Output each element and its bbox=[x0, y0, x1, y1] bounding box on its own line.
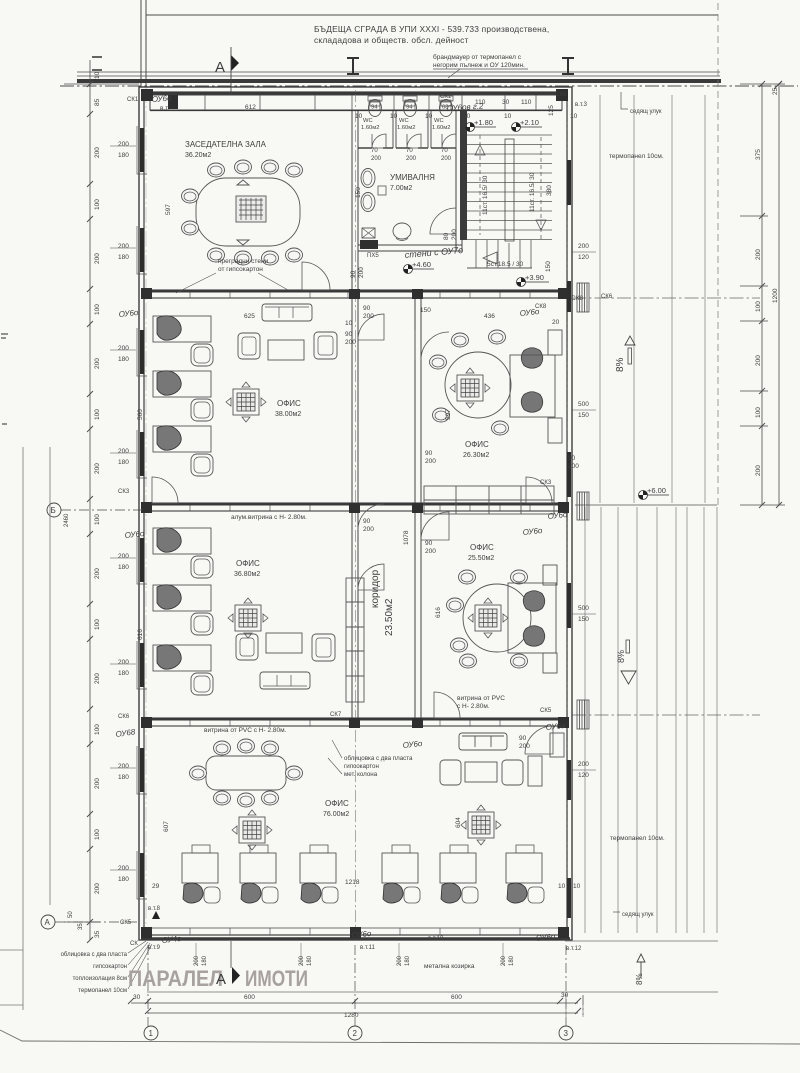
svg-text:200: 200 bbox=[118, 243, 129, 250]
svg-text:+2.10: +2.10 bbox=[520, 118, 539, 127]
svg-text:200: 200 bbox=[118, 763, 129, 770]
svg-text:100: 100 bbox=[94, 619, 101, 630]
svg-text:ОУ6а: ОУ6а bbox=[545, 721, 566, 732]
svg-text:ОУ6о: ОУ6о bbox=[547, 510, 568, 521]
svg-text:1: 1 bbox=[149, 1029, 154, 1038]
svg-text:СК8: СК8 bbox=[571, 295, 583, 302]
svg-text:94: 94 bbox=[371, 105, 378, 111]
svg-text:ПХ5: ПХ5 bbox=[367, 253, 379, 259]
svg-text:90: 90 bbox=[568, 455, 576, 462]
svg-text:200: 200 bbox=[299, 955, 305, 966]
svg-text:436: 436 bbox=[484, 313, 495, 320]
svg-text:94: 94 bbox=[406, 105, 413, 111]
svg-text:200: 200 bbox=[118, 659, 129, 666]
svg-text:80: 80 bbox=[443, 232, 450, 240]
svg-text:70: 70 bbox=[406, 148, 413, 154]
svg-text:термопанел 10см.: термопанел 10см. bbox=[609, 153, 664, 160]
svg-text:200: 200 bbox=[118, 345, 129, 352]
svg-text:200: 200 bbox=[94, 358, 101, 369]
svg-text:10: 10 bbox=[558, 883, 566, 890]
svg-text:А: А bbox=[45, 918, 51, 927]
svg-text:+6.00: +6.00 bbox=[647, 486, 666, 495]
svg-text:200: 200 bbox=[568, 463, 579, 470]
svg-text:90: 90 bbox=[363, 305, 371, 312]
svg-text:120: 120 bbox=[578, 772, 589, 779]
svg-text:150: 150 bbox=[420, 307, 431, 314]
svg-text:стени с ОУ7о: стени с ОУ7о bbox=[404, 245, 463, 260]
svg-text:в.т.11: в.т.11 bbox=[360, 945, 375, 951]
svg-text:топлоизолация 8см: топлоизолация 8см bbox=[73, 976, 127, 982]
svg-text:560: 560 bbox=[137, 409, 144, 420]
svg-text:125: 125 bbox=[548, 105, 555, 116]
svg-text:8%: 8% bbox=[615, 357, 626, 372]
svg-text:100: 100 bbox=[755, 407, 762, 418]
svg-text:ИМОТИ: ИМОТИ bbox=[245, 966, 308, 991]
svg-text:70: 70 bbox=[441, 148, 448, 154]
svg-text:1.60м2: 1.60м2 bbox=[397, 125, 416, 131]
svg-text:200: 200 bbox=[501, 955, 507, 966]
svg-text:180: 180 bbox=[118, 564, 129, 571]
svg-text:СК1: СК1 bbox=[127, 97, 139, 103]
svg-text:150: 150 bbox=[578, 412, 589, 419]
svg-text:30: 30 bbox=[133, 994, 141, 1001]
svg-text:200: 200 bbox=[406, 156, 417, 162]
svg-text:200: 200 bbox=[519, 743, 530, 750]
svg-text:10: 10 bbox=[390, 113, 398, 120]
svg-text:180: 180 bbox=[118, 152, 129, 159]
svg-text:200: 200 bbox=[363, 526, 374, 533]
svg-text:375: 375 bbox=[755, 149, 762, 160]
svg-text:200: 200 bbox=[94, 778, 101, 789]
svg-text:10: 10 bbox=[94, 71, 101, 79]
svg-text:термопанел 10см: термопанел 10см bbox=[78, 988, 127, 994]
svg-text:200: 200 bbox=[755, 465, 762, 476]
svg-text:+1.80: +1.80 bbox=[474, 118, 493, 127]
svg-text:500: 500 bbox=[578, 401, 589, 408]
svg-text:200: 200 bbox=[345, 339, 356, 346]
svg-text:СК3: СК3 bbox=[540, 480, 552, 486]
svg-text:200: 200 bbox=[358, 267, 365, 278]
svg-text:ЗАСЕДАТЕЛНА ЗАЛА: ЗАСЕДАТЕЛНА ЗАЛА bbox=[185, 140, 267, 149]
svg-text:36.80м2: 36.80м2 bbox=[234, 571, 260, 578]
svg-text:612: 612 bbox=[245, 104, 256, 111]
svg-text:3: 3 bbox=[564, 1029, 569, 1038]
svg-text:ОУ6о: ОУ6о bbox=[152, 94, 173, 104]
svg-text:коридор: коридор bbox=[370, 569, 381, 608]
svg-text:26.30м2: 26.30м2 bbox=[463, 452, 489, 459]
svg-text:100: 100 bbox=[94, 514, 101, 525]
svg-text:гипсокартон: гипсокартон bbox=[93, 964, 127, 970]
svg-text:с Н- 2.80м.: с Н- 2.80м. bbox=[457, 703, 490, 710]
svg-text:+3.90: +3.90 bbox=[525, 273, 544, 282]
svg-text:11ст. 16.5/ 30: 11ст. 16.5/ 30 bbox=[482, 175, 489, 215]
svg-text:200: 200 bbox=[397, 955, 403, 966]
svg-text:30: 30 bbox=[561, 992, 569, 999]
svg-text:в.т.: в.т. bbox=[160, 105, 170, 112]
svg-text:200: 200 bbox=[94, 568, 101, 579]
svg-text:WC: WC bbox=[434, 118, 444, 124]
svg-text:облицовка с два пласта: облицовка с два пласта bbox=[61, 952, 128, 958]
svg-text:в.т.10: в.т.10 bbox=[428, 936, 444, 942]
svg-text:2460: 2460 bbox=[64, 513, 70, 527]
svg-text:10: 10 bbox=[355, 113, 363, 120]
svg-text:76.00м2: 76.00м2 bbox=[323, 811, 349, 818]
svg-text:100: 100 bbox=[94, 304, 101, 315]
svg-text:30: 30 bbox=[502, 99, 510, 106]
svg-text:180: 180 bbox=[118, 356, 129, 363]
svg-text:мет. колона: мет. колона bbox=[344, 771, 378, 778]
svg-text:седящ улук: седящ улук bbox=[630, 109, 662, 115]
svg-text:10: 10 bbox=[570, 113, 578, 120]
svg-text:200: 200 bbox=[118, 865, 129, 872]
svg-text:25.50м2: 25.50м2 bbox=[468, 555, 494, 562]
svg-text:200: 200 bbox=[94, 147, 101, 158]
svg-text:90: 90 bbox=[519, 735, 527, 742]
svg-text:38.00м2: 38.00м2 bbox=[275, 411, 301, 418]
svg-text:200: 200 bbox=[441, 156, 452, 162]
svg-text:625: 625 bbox=[244, 313, 255, 320]
svg-text:23.50м2: 23.50м2 bbox=[384, 598, 395, 636]
svg-text:597: 597 bbox=[165, 204, 172, 215]
svg-text:100: 100 bbox=[94, 199, 101, 210]
svg-text:180: 180 bbox=[405, 955, 411, 966]
svg-text:8%: 8% bbox=[616, 650, 626, 663]
svg-text:в.т.3: в.т.3 bbox=[575, 102, 588, 108]
svg-text:метална козирка: метална козирка bbox=[424, 963, 475, 970]
svg-text:25: 25 bbox=[772, 87, 779, 95]
svg-text:10: 10 bbox=[425, 113, 433, 120]
svg-text:СК5: СК5 bbox=[540, 708, 552, 714]
svg-text:616: 616 bbox=[435, 607, 442, 618]
svg-text:200: 200 bbox=[425, 548, 436, 555]
svg-text:ОФИС: ОФИС bbox=[470, 543, 494, 552]
svg-text:180: 180 bbox=[307, 955, 313, 966]
svg-text:200: 200 bbox=[755, 355, 762, 366]
svg-text:36.20м2: 36.20м2 bbox=[185, 152, 211, 159]
svg-text:150: 150 bbox=[578, 616, 589, 623]
svg-text:преградни стени: преградни стени bbox=[218, 258, 269, 265]
svg-text:200: 200 bbox=[578, 243, 589, 250]
svg-text:СК6: СК6 bbox=[555, 92, 567, 98]
svg-text:витрина от PVC: витрина от PVC bbox=[457, 695, 505, 702]
svg-text:от гипсокартон: от гипсокартон bbox=[218, 266, 263, 273]
svg-text:ОФИС: ОФИС bbox=[325, 799, 349, 808]
svg-text:ОУ68: ОУ68 bbox=[115, 727, 136, 739]
svg-text:90: 90 bbox=[350, 270, 357, 278]
svg-text:150: 150 bbox=[355, 187, 362, 198]
svg-text:СК6: СК6 bbox=[601, 294, 613, 300]
svg-text:20: 20 bbox=[552, 319, 560, 326]
svg-text:склададова и обществ. обсл. де: склададова и обществ. обсл. дейност bbox=[314, 35, 469, 45]
svg-text:ОУ6о: ОУ6о bbox=[535, 932, 556, 943]
svg-text:180: 180 bbox=[202, 955, 208, 966]
svg-text:200: 200 bbox=[371, 156, 382, 162]
svg-text:180: 180 bbox=[118, 459, 129, 466]
svg-text:200: 200 bbox=[94, 463, 101, 474]
svg-text:150: 150 bbox=[545, 261, 552, 272]
svg-text:607: 607 bbox=[163, 821, 170, 832]
svg-text:СК7: СК7 bbox=[330, 712, 342, 718]
svg-text:алум.витрина с Н- 2.80м.: алум.витрина с Н- 2.80м. bbox=[231, 514, 307, 521]
svg-text:29: 29 bbox=[152, 883, 160, 890]
svg-text:100: 100 bbox=[755, 301, 762, 312]
svg-text:в.т.12: в.т.12 bbox=[566, 946, 582, 952]
svg-text:ПАРАЛЕЛ: ПАРАЛЕЛ bbox=[128, 966, 223, 991]
svg-text:гипсокартон: гипсокартон bbox=[344, 763, 379, 770]
svg-text:35: 35 bbox=[78, 923, 84, 930]
svg-text:10: 10 bbox=[573, 883, 581, 890]
svg-text:100: 100 bbox=[94, 724, 101, 735]
svg-text:200: 200 bbox=[118, 141, 129, 148]
svg-text:+4.60: +4.60 bbox=[412, 260, 431, 269]
svg-text:СК3: СК3 bbox=[118, 489, 130, 495]
svg-text:термопанел 10см.: термопанел 10см. bbox=[610, 835, 665, 842]
svg-text:90: 90 bbox=[363, 518, 371, 525]
svg-text:СК6: СК6 bbox=[118, 714, 130, 720]
svg-text:200: 200 bbox=[363, 313, 374, 320]
svg-text:Б: Б bbox=[51, 506, 56, 515]
svg-text:8%: 8% bbox=[635, 973, 644, 985]
svg-text:180: 180 bbox=[509, 955, 515, 966]
svg-text:облицовка с два пласта: облицовка с два пласта bbox=[344, 755, 413, 762]
svg-text:1.60м2: 1.60м2 bbox=[432, 125, 451, 131]
svg-text:200: 200 bbox=[425, 458, 436, 465]
svg-text:ОУ6о: ОУ6о bbox=[402, 739, 423, 750]
svg-text:100: 100 bbox=[94, 829, 101, 840]
svg-text:СК5: СК5 bbox=[120, 920, 132, 926]
svg-text:11ст. 16.5/ 30: 11ст. 16.5/ 30 bbox=[529, 172, 536, 212]
svg-text:СК8: СК8 bbox=[535, 304, 547, 310]
svg-text:седящ улук: седящ улук bbox=[622, 912, 654, 918]
svg-text:1218: 1218 bbox=[345, 879, 360, 886]
svg-text:500: 500 bbox=[578, 605, 589, 612]
svg-text:110: 110 bbox=[521, 99, 532, 106]
svg-text:СК1: СК1 bbox=[440, 94, 452, 100]
svg-text:110: 110 bbox=[475, 99, 486, 106]
svg-text:10: 10 bbox=[345, 320, 353, 327]
svg-text:негорим пълнеж и ОУ 120мин.: негорим пълнеж и ОУ 120мин. bbox=[433, 62, 525, 69]
svg-text:600: 600 bbox=[244, 994, 255, 1001]
svg-text:90: 90 bbox=[345, 331, 353, 338]
svg-text:ОУ6о: ОУ6о bbox=[118, 308, 139, 319]
svg-text:10: 10 bbox=[504, 113, 512, 120]
svg-text:200: 200 bbox=[94, 253, 101, 264]
svg-text:1200: 1200 bbox=[772, 288, 779, 303]
svg-text:90: 90 bbox=[425, 540, 433, 547]
svg-text:90: 90 bbox=[425, 450, 433, 457]
svg-text:597: 597 bbox=[445, 409, 452, 420]
svg-text:витрина от PVC с Н- 2.80м.: витрина от PVC с Н- 2.80м. bbox=[204, 727, 287, 734]
svg-text:180: 180 bbox=[118, 774, 129, 781]
svg-text:200: 200 bbox=[94, 883, 101, 894]
svg-text:10: 10 bbox=[463, 113, 471, 120]
svg-text:А: А bbox=[215, 59, 225, 76]
svg-text:85: 85 bbox=[94, 98, 101, 106]
svg-text:50: 50 bbox=[68, 911, 74, 918]
svg-text:А: А bbox=[216, 971, 226, 988]
svg-text:70: 70 bbox=[371, 148, 378, 154]
svg-text:в.т.8: в.т.8 bbox=[148, 906, 161, 912]
svg-text:616: 616 bbox=[137, 629, 144, 640]
svg-text:200: 200 bbox=[755, 249, 762, 260]
svg-text:брандмауер от термопанел с: брандмауер от термопанел с bbox=[433, 53, 522, 61]
svg-text:35: 35 bbox=[94, 930, 101, 938]
svg-text:604: 604 bbox=[455, 817, 462, 828]
svg-text:600: 600 bbox=[451, 994, 462, 1001]
svg-text:УМИВАЛНЯ: УМИВАЛНЯ bbox=[390, 173, 435, 182]
svg-text:ОФИС: ОФИС bbox=[277, 399, 301, 408]
svg-text:БЪДЕЩА СГРАДА В УПИ XXXI - 539: БЪДЕЩА СГРАДА В УПИ XXXI - 539.733 произ… bbox=[314, 24, 549, 34]
svg-text:120: 120 bbox=[578, 254, 589, 261]
svg-text:200: 200 bbox=[578, 761, 589, 768]
svg-text:200: 200 bbox=[451, 229, 458, 240]
svg-text:WC: WC bbox=[399, 118, 409, 124]
svg-text:ОУ6о: ОУ6о bbox=[522, 526, 543, 537]
svg-text:200: 200 bbox=[118, 448, 129, 455]
svg-text:100: 100 bbox=[94, 409, 101, 420]
svg-text:180: 180 bbox=[118, 876, 129, 883]
svg-text:1280: 1280 bbox=[344, 1012, 359, 1019]
svg-text:СК: СК bbox=[130, 941, 138, 947]
svg-text:200: 200 bbox=[118, 553, 129, 560]
svg-text:5ст.18.5 / 30: 5ст.18.5 / 30 bbox=[487, 261, 524, 268]
svg-text:ОУ4о: ОУ4о bbox=[161, 934, 182, 945]
svg-text:WC: WC bbox=[363, 118, 373, 124]
svg-text:ОФИС: ОФИС bbox=[465, 440, 489, 449]
svg-text:200: 200 bbox=[194, 955, 200, 966]
svg-text:200: 200 bbox=[94, 673, 101, 684]
svg-text:1.60м2: 1.60м2 bbox=[361, 125, 380, 131]
svg-text:ОФИС: ОФИС bbox=[236, 559, 260, 568]
svg-text:1078: 1078 bbox=[403, 530, 410, 545]
svg-text:380: 380 bbox=[546, 185, 553, 196]
svg-text:2: 2 bbox=[353, 1029, 358, 1038]
svg-text:180: 180 bbox=[118, 670, 129, 677]
svg-text:7.00м2: 7.00м2 bbox=[390, 185, 412, 192]
svg-text:180: 180 bbox=[118, 254, 129, 261]
